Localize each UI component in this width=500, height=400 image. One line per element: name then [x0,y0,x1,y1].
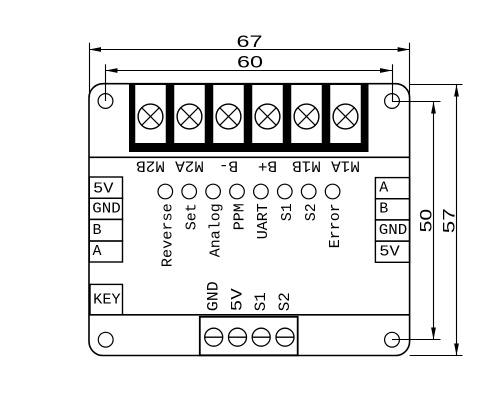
svg-text:M2A: M2A [175,156,204,174]
svg-text:M1B: M1B [292,156,321,174]
svg-text:57: 57 [440,208,459,233]
svg-text:Set: Set [184,203,201,230]
svg-text:50: 50 [417,209,436,233]
svg-text:GND: GND [205,281,223,311]
svg-text:PPM: PPM [231,203,248,230]
svg-text:Analog: Analog [207,203,224,257]
svg-text:B: B [379,201,388,218]
svg-text:KEY: KEY [93,292,121,309]
svg-text:A: A [93,243,102,260]
svg-text:S2: S2 [276,292,294,311]
svg-text:S2: S2 [303,203,320,221]
svg-text:S1: S1 [279,203,296,221]
svg-text:M1A: M1A [331,156,360,174]
svg-text:A: A [379,179,388,196]
svg-text:GND: GND [379,222,408,239]
svg-text:60: 60 [237,53,263,72]
svg-text:B+: B+ [258,156,277,174]
svg-text:M2B: M2B [136,156,165,174]
svg-text:S1: S1 [252,292,270,311]
svg-text:Error: Error [327,203,344,248]
svg-text:UART: UART [255,203,272,239]
svg-text:5V: 5V [93,181,114,198]
svg-text:Reverse: Reverse [160,203,177,267]
svg-text:5V: 5V [229,288,247,311]
svg-text:B: B [93,222,102,239]
svg-text:B-: B- [219,156,238,174]
svg-text:67: 67 [237,32,263,51]
svg-text:5V: 5V [379,243,400,260]
svg-text:GND: GND [92,200,121,217]
